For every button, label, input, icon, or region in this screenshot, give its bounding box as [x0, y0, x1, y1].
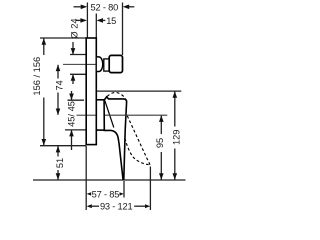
wire: cup top reference [68, 99, 85, 101]
wall plate (escutcheon) [86, 38, 96, 145]
connection neck [104, 59, 109, 71]
lever handle body [104, 97, 127, 179]
svg-text:93 - 121: 93 - 121 [100, 202, 133, 212]
node: dimension 15 right arrow [97, 18, 104, 23]
connection bump [97, 57, 103, 72]
node: dimension 93-121 [87, 204, 92, 208]
node: dimension 52-80 left arrow [81, 5, 88, 10]
node: dimension 45/45 lower arrow [71, 130, 73, 150]
dashed lever lowered position upper line [127, 116, 150, 165]
dashed lever lowered position lower line [125, 138, 149, 164]
wire: diameter 24 bottom reference [70, 73, 86, 75]
wire: extension below dashed lever tip [149, 167, 151, 211]
node: dimension 156/156 line [43, 39, 45, 56]
wire: connection centerline [63, 63, 86, 65]
svg-text:45/ 45: 45/ 45 [66, 101, 76, 127]
wire: extension below lever tip [123, 181, 125, 198]
node: dimension 15 left arrow [80, 18, 87, 23]
svg-text:129: 129 [171, 130, 181, 146]
wire: extension line right of connection block [122, 3, 124, 56]
svg-text:Ø 24: Ø 24 [69, 18, 79, 38]
svg-text:52 - 80: 52 - 80 [91, 2, 119, 12]
wire: cup bottom reference [65, 129, 86, 131]
handle cup escutcheon [96, 100, 104, 130]
wire: extension line above plate right edge [95, 14, 97, 39]
wire: diameter 24 top reference [70, 54, 86, 56]
node: dimension 57-85 [87, 192, 92, 195]
node: dimension 95 line [160, 116, 162, 134]
node: dimension 51 line [57, 146, 59, 156]
wire: plate top reference line [40, 37, 87, 39]
wire: 129 top reference [97, 90, 182, 92]
node: dimension diameter 24 lower arrow [72, 74, 74, 84]
svg-text:156 / 156: 156 / 156 [32, 57, 42, 96]
dashed lever raised position [107, 92, 126, 98]
wire: extension line above plate left edge [86, 3, 88, 39]
node: dimension 74 line [57, 65, 59, 79]
node: dimension 52-80 right arrow [123, 5, 130, 10]
svg-text:57 - 85: 57 - 85 [92, 189, 120, 199]
connection block [109, 55, 122, 72]
wire: plate bottom reference line [40, 145, 86, 147]
node: dimension 129 line [174, 92, 176, 127]
lever neck slant line [105, 101, 114, 128]
svg-text:51: 51 [55, 158, 65, 168]
svg-text:74: 74 [55, 80, 65, 90]
wire: floor baseline [33, 179, 186, 181]
svg-text:15: 15 [106, 16, 116, 26]
node: dimension diameter 24 upper arrow [72, 42, 74, 54]
svg-text:95: 95 [155, 138, 165, 148]
wire: main centerline at 95 height [77, 114, 86, 116]
node: dimension 45/45 upper arrow [71, 91, 73, 100]
wire: extension below plate front [85, 146, 87, 210]
